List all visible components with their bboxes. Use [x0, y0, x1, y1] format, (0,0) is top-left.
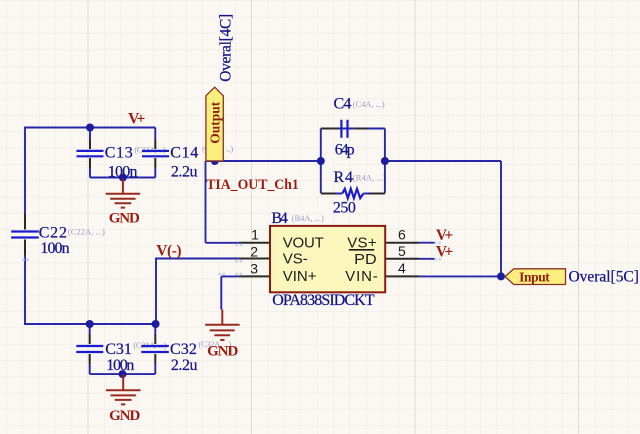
svg-text:C13: C13: [105, 145, 133, 162]
svg-text:Input: Input: [519, 270, 550, 285]
svg-text:64p: 64p: [335, 141, 355, 158]
svg-text:R4: R4: [334, 169, 354, 186]
svg-text:100n: 100n: [40, 240, 69, 257]
svg-text:OPA838SIDCKT: OPA838SIDCKT: [272, 292, 375, 309]
svg-text:(C13A, ...): (C13A, ...): [134, 145, 165, 155]
svg-text:(R4A, ...): (R4A, ...): [353, 172, 386, 182]
svg-text:2: 2: [250, 243, 258, 259]
svg-text:GND: GND: [207, 343, 238, 359]
svg-text:Overal[5C]: Overal[5C]: [569, 269, 639, 286]
svg-text:C14: C14: [170, 145, 198, 162]
svg-text:C22: C22: [39, 225, 67, 242]
svg-text:V(-): V(-): [156, 242, 181, 259]
svg-text:Overal[4C]: Overal[4C]: [217, 14, 234, 82]
svg-text:4: 4: [398, 260, 406, 276]
svg-text:100n: 100n: [106, 357, 134, 374]
svg-text:PD: PD: [354, 251, 377, 268]
svg-text:C32: C32: [170, 341, 197, 358]
svg-text:100n: 100n: [108, 163, 138, 180]
svg-text:C4: C4: [334, 96, 352, 113]
svg-text:3: 3: [250, 260, 258, 276]
svg-text:Output: Output: [208, 101, 223, 144]
svg-text:(C4A, ...): (C4A, ...): [353, 99, 385, 109]
svg-text:GND: GND: [109, 211, 140, 227]
svg-text:1: 1: [251, 226, 259, 242]
svg-text:B4: B4: [271, 210, 288, 227]
svg-text:VIN+: VIN+: [283, 268, 317, 285]
svg-text:TIA_OUT_Ch1: TIA_OUT_Ch1: [206, 177, 299, 193]
svg-text:C31: C31: [105, 341, 132, 358]
svg-text:VOUT: VOUT: [283, 234, 324, 251]
svg-text:250: 250: [333, 200, 356, 217]
svg-text:GND: GND: [109, 408, 140, 424]
svg-text:VS+: VS+: [347, 234, 377, 251]
svg-text:VS-: VS-: [283, 251, 308, 268]
svg-text:V+: V+: [128, 110, 145, 127]
svg-text:(B4A, ...): (B4A, ...): [292, 213, 324, 223]
svg-text:6: 6: [398, 226, 406, 242]
svg-text:(C22A, ...): (C22A, ...): [68, 227, 105, 237]
svg-text:2.2u: 2.2u: [171, 163, 198, 180]
svg-text:5: 5: [398, 243, 406, 259]
svg-text:VIN-: VIN-: [345, 268, 377, 285]
svg-text:2.2u: 2.2u: [171, 357, 198, 374]
